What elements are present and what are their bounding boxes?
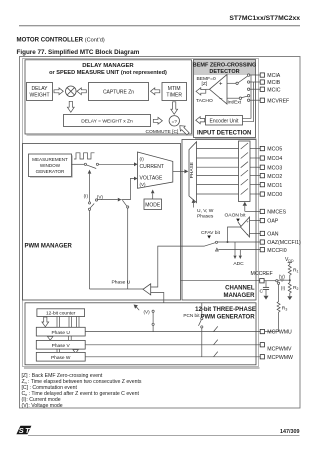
box: 12-bit counter [37,309,85,317]
svg-text:Figure 77. Simplified MTC Bloc: Figure 77. Simplified MTC Block Diagram [17,49,140,56]
wire MCCFI0 line [218,249,260,251]
wire op-amp output to OAZ [228,227,241,242]
header rule [19,25,300,27]
box: Phase W [36,352,85,361]
page number [280,429,300,435]
svg-text:ST7MC1xx/ST7MC2xx: ST7MC1xx/ST7MC2xx [229,15,300,22]
pin MCVREF [250,98,290,104]
bemf header gray band [194,60,255,75]
svg-text:VOLTAGE: VOLTAGE [140,176,164,182]
svg-text:MTIM: MTIM [168,86,181,92]
label (I) [281,285,286,290]
label CFAV bit [201,230,221,238]
svg-text:COMMUTE [C]: COMMUTE [C] [146,129,180,135]
wire MCCREF internal [181,280,260,282]
box: MODE [144,199,162,210]
pin MCPWMU [260,329,292,335]
box: 12-bit three-phase PWM generator [25,303,256,365]
blade to (V) [278,279,281,282]
svg-text:CHANNEL: CHANNEL [225,286,255,292]
svg-text:PCN bit: PCN bit [183,313,200,318]
pin NMCES [260,209,286,215]
svg-text:MCO3: MCO3 [267,165,282,171]
wires MCO stubs [250,149,260,195]
contact MCIA [247,74,249,76]
box: MEASUREMENT WINDOW GENERATOR [29,154,72,177]
resistor R2 [288,283,298,297]
svg-text:INPUT DETECTION: INPUT DETECTION [197,130,251,136]
contact (V) [95,199,97,201]
contact [84,163,86,165]
mux trapezoid CURRENT/VOLTAGE [138,152,173,188]
switch blade [87,165,97,169]
figure caption [17,49,140,56]
label BEMF=0 [Z] [197,76,216,87]
block arrow right (to comparator) [153,117,162,124]
ST logo [16,426,31,435]
box: CHANNEL MANAGER [182,140,256,301]
svg-text:DELAY MANAGER: DELAY MANAGER [82,63,134,69]
label Phase U [112,279,131,285]
svg-text:TIMER: TIMER [166,92,182,98]
svg-text:12-bit THREE-PHASE: 12-bit THREE-PHASE [195,307,256,313]
wire phase W out [85,356,260,358]
svg-text:MCO1: MCO1 [267,183,282,189]
label PCN bit + switch [183,303,203,357]
bus lines counter to phase U [57,317,79,328]
arrow up into phase trapezoid [192,199,196,208]
svg-text:MCPWMV: MCPWMV [267,346,292,352]
junction contact [236,82,238,84]
svg-text:(V): (V) [97,195,104,200]
wire OAP stub [250,220,261,222]
svg-text:(I): (I) [140,157,145,162]
wire (V) horizontal [98,199,118,201]
svg-text:OAP: OAP [267,219,278,225]
svg-text:MCO2: MCO2 [267,174,282,180]
wire mode to mux [152,193,154,199]
resistor R3 [277,302,287,314]
label U,V,W phases [197,208,214,219]
pin MCCFI0 [260,248,287,254]
svg-text:147/309: 147/309 [280,429,300,435]
wire mux output [173,170,185,172]
svg-text:WEIGHT: WEIGHT [30,92,50,98]
ground below R2 [287,296,292,300]
lower contact triangle [216,248,219,251]
box: Encoder Unit [206,116,243,126]
wire encoder to MCIB [243,82,254,122]
svg-text:C: C [260,289,264,295]
contact MCIC [247,88,249,90]
block arrow left (encoder out) [196,117,205,124]
output switch column box [239,141,251,202]
svg-text:WINDOW: WINDOW [40,163,61,168]
label COMMUTE [C] [146,129,180,135]
svg-text:(V): (V) [144,309,151,314]
wire OAN stub [250,232,261,234]
svg-text:(V): Voltage mode: (V): Voltage mode [22,403,63,409]
svg-text:(I): (I) [281,285,286,290]
wire route to pwm generator [151,293,164,303]
svg-text:BEMF=0: BEMF=0 [197,76,216,82]
pin MCO3 [260,165,282,171]
contact MCVREF [247,99,249,101]
wire comparator output [206,88,210,90]
wire encoder to MCIA [243,75,252,118]
svg-text:PWM GENERATOR: PWM GENERATOR [200,315,255,321]
svg-text:MCO0: MCO0 [267,192,282,198]
svg-text:(V): (V) [140,182,147,187]
svg-text:NMCES: NMCES [267,210,286,216]
pin MCIB [250,80,281,86]
resistor R1 [288,265,298,278]
arrow up into window switch [88,170,92,174]
box: MTIM TIMER [162,83,187,101]
block arrow right (delay weight to X) [54,88,63,95]
contact internal ref [247,95,249,97]
svg-text:Phase V: Phase V [52,343,71,349]
wires phase outputs [197,149,239,195]
section heading [17,37,105,44]
svg-text:BEMF ZERO-CROSSING: BEMF ZERO-CROSSING [193,63,257,69]
svg-text:MCIA: MCIA [267,73,281,79]
contact [88,202,90,204]
svg-text:MCPWMU: MCPWMU [267,330,292,336]
pulse train glyph [74,153,95,159]
svg-text:+: + [219,82,223,88]
svg-text:MCCFI0: MCCFI0 [267,248,286,254]
label (V) [279,274,286,279]
svg-text:MCIC: MCIC [267,87,281,93]
blade marks on phase wires [214,326,218,356]
pin MCO4 [260,156,282,162]
box: DELAY WEIGHT [27,83,53,101]
box: BEMF ZERO-CROSSING DETECTOR / INPUT DETECTION [194,60,256,138]
ground below C [264,296,269,300]
svg-text:ADC: ADC [233,261,244,267]
junction dot [289,279,291,281]
box: Phase V [36,340,85,349]
block arrow left (Z/tacho out) [196,88,206,95]
contact [215,241,217,243]
svg-text:DELAY = WEIGHT x Zn: DELAY = WEIGHT x Zn [81,119,133,125]
phase selector trapezoid [189,142,197,203]
svg-text:Phase W: Phase W [51,355,71,361]
svg-text:MANAGER: MANAGER [224,293,256,299]
box: Phase U [36,327,85,336]
switch blade to MCIA [238,76,247,82]
pin OAP [260,218,279,224]
svg-text:or SPEED MEASURE UNIT (not rep: or SPEED MEASURE UNIT (not represented) [49,70,167,76]
pin MCCREF [251,271,273,283]
header title ST7MC1xx/ST7MC2xx [229,15,300,22]
svg-text:PHASE: PHASE [189,162,195,178]
svg-text:OAN: OAN [267,232,278,238]
contact common [276,280,278,282]
svg-text:GENERATOR: GENERATOR [36,169,65,174]
label OAON bit [225,213,247,222]
label Int/Ext [228,99,242,105]
pin MCO2 [260,174,282,180]
phase U buffer triangle [143,284,151,295]
delay manager shadow [27,134,193,136]
wire (I) vertical [89,174,91,202]
contact MCIB [247,81,249,83]
wire (V) to divider [283,279,290,281]
wire MCCREF to switch [264,280,276,282]
svg-text:PWM MANAGER: PWM MANAGER [25,244,73,250]
wire phase V out [85,344,260,346]
svg-text:MOTOR CONTROLLER (Cont’d): MOTOR CONTROLLER (Cont’d) [17,37,105,44]
wire MCPWMU extension [265,331,279,333]
svg-text:OAON bit: OAON bit [225,213,247,219]
wire (I) vertical lower [89,210,91,289]
block arrow down (counter to phase U) [42,317,49,327]
multiplier X circle [66,86,77,97]
svg-text:MCO5: MCO5 [267,147,282,153]
comparator U (BEMF) [210,75,228,105]
pin OAN [260,231,279,237]
block arrow down (X to delay calc) [67,101,74,112]
svg-text:DETECTOR: DETECTOR [209,69,239,75]
svg-text:MODE: MODE [145,203,161,209]
wire voltage feed to mux [121,179,134,200]
svg-text:ST: ST [19,426,31,435]
pin MCO5 [260,146,282,152]
svg-text:−: − [219,97,223,103]
ADC taps [233,242,244,267]
label (V) [97,195,104,200]
svg-text:Phase U: Phase U [51,330,70,336]
wire feed from PWM manager [151,246,205,287]
NMCES arrow into switch box [243,202,261,212]
arrow + bus between U and V [47,336,71,340]
svg-text:=?: =? [172,119,178,124]
figure outer frame [20,57,301,409]
chip box [23,59,259,367]
switch blade Int/Ext [242,96,248,97]
wire OAZ line [218,241,261,243]
pin MCPWMW [260,355,293,361]
svg-text:Phase U: Phase U [112,279,131,285]
svg-text:[Z]: [Z] [202,81,208,87]
svg-text:OAZ(MCCFI1): OAZ(MCCFI1) [267,240,301,246]
VDD label [285,257,294,265]
wire buffer output [90,288,144,290]
svg-text:(V): (V) [279,274,286,279]
wire - input [227,97,239,99]
box: DELAY MANAGER [25,60,192,134]
svg-text:(I): (I) [84,193,89,198]
svg-text:TACHO: TACHO [196,98,213,104]
switch blades MCO5..MCO0 [241,143,248,195]
wire phase U out [85,331,260,333]
svg-text:Encoder Unit: Encoder Unit [210,119,240,125]
svg-text:MCCREF: MCCREF [251,271,273,277]
junction contact minus [239,97,241,99]
box: PWM MANAGER [23,144,181,301]
op-amp triangle [241,217,250,237]
wire MWG output [72,163,85,165]
svg-text:DELAY: DELAY [31,86,48,92]
box: CAPTURE Zn [89,83,149,101]
contact (V) [281,279,283,281]
comparator =? circle [169,116,179,126]
CFAV switch blade [205,243,216,246]
wire + input [227,82,236,84]
contact [127,206,129,208]
svg-text:Int/Ext: Int/Ext [228,99,242,105]
wire (V) vertical [127,208,129,289]
footer rule [28,435,300,437]
svg-text:MCO4: MCO4 [267,156,282,162]
svg-text:MCIB: MCIB [267,80,281,86]
svg-text:[Z] : Back EMF Zero-crossing e: [Z] : Back EMF Zero-crossing event [22,373,103,379]
svg-text:U, V, W: U, V, W [197,208,214,214]
svg-text:Phases: Phases [197,213,214,219]
label INPUT DETECTION [197,130,251,136]
switch blade (I) [90,204,94,209]
svg-text:MEASUREMENT: MEASUREMENT [32,157,68,162]
svg-text:Zn : Time elapsed between two: Zn : Time elapsed between two consecutiv… [22,379,142,385]
block arrow left (capture to X) [77,88,86,95]
svg-text:CAPTURE Zn: CAPTURE Zn [103,89,134,95]
block arrow down (MTIM to compare) [171,102,178,115]
pin MCO1 [260,183,282,189]
pin MCIA [250,73,281,79]
contact (I) [278,282,280,284]
wire R3 down to MCPWMU [278,313,280,332]
svg-text:[C] : Commutation event: [C] : Commutation event [22,385,78,391]
title: DELAY MANAGER [49,63,167,76]
svg-text:MCVREF: MCVREF [267,98,289,104]
contact [88,208,90,210]
block arrow left (MTIM to capture) [151,88,160,95]
pin MCO0 [260,192,282,198]
pin MCPWMV [260,343,292,353]
contact [96,163,98,165]
svg-text:12-bit counter: 12-bit counter [46,311,76,317]
pin OAZ(MCCFI1) [260,240,301,246]
svg-text:CURRENT: CURRENT [140,164,164,170]
label TACHO [196,98,213,104]
wire down to R3 [278,284,280,301]
chip bottom shadow [24,367,260,369]
svg-text:CFAV bit: CFAV bit [201,230,221,236]
box: DELAY = WEIGHT x Zn [64,115,151,127]
commute block arrow (diagonal) [180,126,189,135]
switch blade (V) [122,200,126,206]
capacitor C [260,281,270,296]
op-amp enable blade [238,222,243,229]
pin MCIC [250,87,281,93]
(V) tap group [134,305,155,332]
svg-text:MCPWMW: MCPWMW [267,355,293,361]
label (I) [84,193,89,198]
wire to mux current input [99,163,135,165]
arrow + bus between V and W [57,349,78,353]
